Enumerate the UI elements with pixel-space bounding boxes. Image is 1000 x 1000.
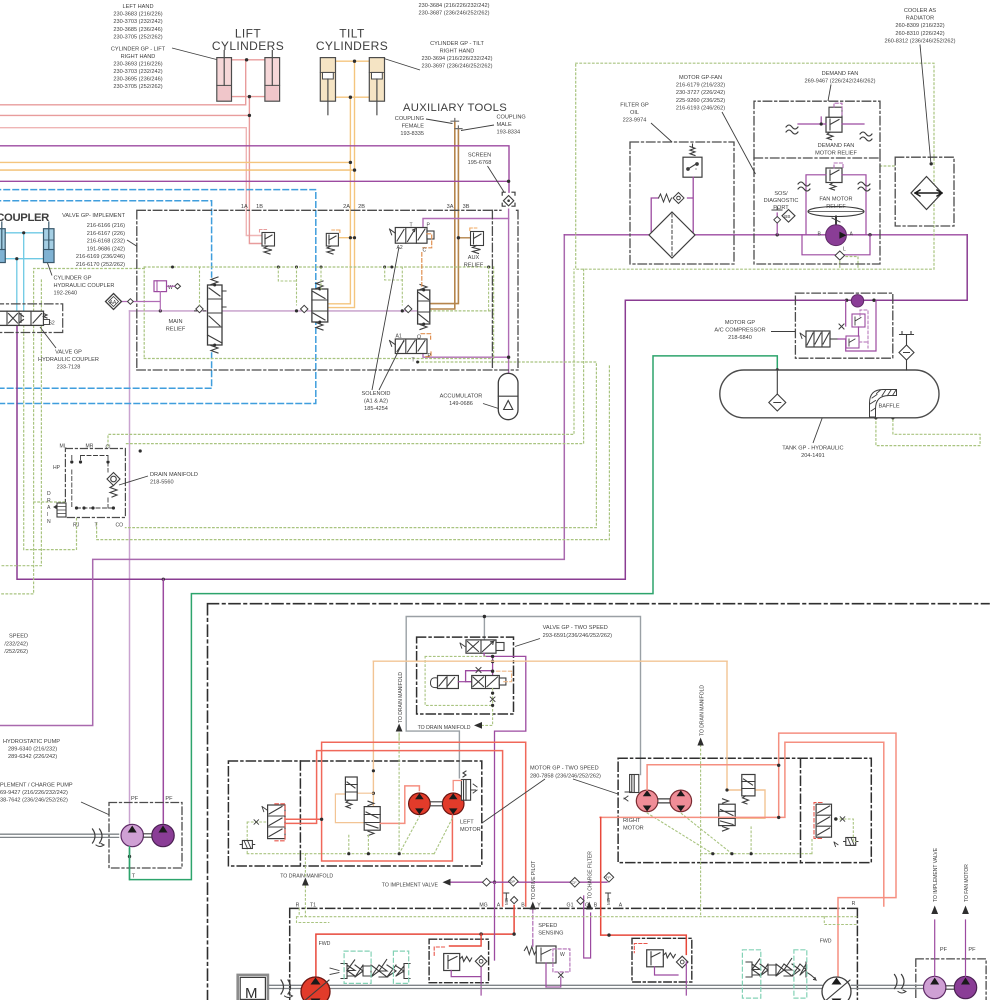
main relief spool 1 [208,277,227,353]
engine shaft upper [0,834,119,837]
svg-text:293-6591(236/246/252/262): 293-6591(236/246/252/262) [543,633,612,639]
svg-text:MOTOR RELIEF: MOTOR RELIEF [815,151,857,157]
arrow to drain manifold left of two speed box [396,724,403,732]
svg-text:SENSING: SENSING [538,931,563,937]
svg-text:HYDRAULIC COUPLER: HYDRAULIC COUPLER [38,357,99,363]
leaders solenoid [372,247,404,390]
label tank gp hydraulic [782,446,843,460]
svg-text:218-6840: 218-6840 [728,335,752,341]
svg-text:/232/242): /232/242) [4,641,28,647]
left motor salmon loop A [285,751,503,906]
svg-text:PF: PF [968,947,976,953]
wire pink lift cylinders top [232,59,266,61]
arrow to drive pilot [530,902,536,910]
svg-text:225-9260 (236/252): 225-9260 (236/252) [676,98,725,104]
label coupling male [497,115,526,136]
label aux relief [464,255,484,269]
junction dots implement gallery [159,309,404,312]
label fan motor relief [819,197,852,211]
wire purple charge pump riser [162,579,164,823]
ac compressor clutch circle [851,295,863,307]
wire orange relief 2 stub [338,237,354,239]
label valve gp hydraulic coupler [38,350,99,371]
svg-text:DIAGNOSTIC: DIAGNOSTIC [764,198,799,204]
label speed sensing [538,923,563,937]
svg-text:D: D [47,491,51,497]
svg-text:216-6168 (232): 216-6168 (232) [87,239,125,245]
leader cooler [920,45,931,163]
valve spool 2 [312,281,328,330]
left motor circle 1 [409,793,431,815]
drain manifold port labels [53,444,123,529]
junction dots orange [349,60,357,240]
small port symbols above boundary [504,893,611,900]
dash-dot divider implement accumulator bay [491,210,493,370]
green dotted tank bottom drains [876,418,980,446]
svg-text:MB: MB [504,898,509,905]
title lift cylinders [212,27,284,54]
svg-text:RIGHT HAND: RIGHT HAND [440,49,475,55]
label motor gp fan [676,75,725,111]
check diamond valve 3 [405,305,412,312]
fwd control linkage springs [330,959,410,979]
wire purple solenoid A1 T [423,351,509,357]
fan motor port letters [818,232,854,253]
svg-text:FP: FP [606,876,611,880]
leader charge pump [81,802,109,815]
label motor gp two speed [530,766,601,780]
svg-text:260-8312 (236/246/252/262): 260-8312 (236/246/252/262) [885,38,956,44]
relief valve 2 [326,230,340,254]
wire purple fan supply gallery [564,234,967,236]
green dotted cooler link [880,165,895,167]
junction dots fan gallery [650,233,876,302]
green dotted right motor drains [647,745,856,917]
leader tilt cylinder [384,59,420,71]
junction dot purple [507,180,510,183]
left motor relief cartridge [345,777,357,808]
wire purple long line to screen [0,146,509,192]
left shift valve [262,805,285,839]
svg-text:N: N [47,519,51,525]
svg-text:M: M [245,985,258,1000]
salmon left motor c2 stub [453,781,461,791]
svg-text:MOTOR: MOTOR [623,826,644,832]
arrow to drain manifold right motor [697,738,703,746]
svg-text:230-3687 (236/246/252/262): 230-3687 (236/246/252/262) [419,11,490,17]
green dotted fan box drain return [125,269,583,443]
svg-text:MOTOR GP - TWO SPEED: MOTOR GP - TWO SPEED [530,766,599,772]
svg-text:BB: BB [784,214,790,219]
leader drain manifold [119,476,148,485]
leader screen [488,166,505,192]
svg-text:216-6193 (246/262): 216-6193 (246/262) [676,105,725,111]
junction dot pump green [128,855,131,858]
purple dashed fan relief pilot [834,163,843,168]
dash-dot box drain manifold [65,449,125,518]
svg-text:S2: S2 [49,321,55,327]
svg-text:TO DRAIN MANIFOLD: TO DRAIN MANIFOLD [418,725,471,731]
dash-dot box pump gp [290,908,858,1000]
junction dot loop B valve stub [320,818,323,821]
svg-text:FWD: FWD [319,941,331,947]
svg-text:216-6170 (252/262): 216-6170 (252/262) [76,262,125,268]
svg-text:R: R [296,903,300,909]
svg-text:Y: Y [537,903,541,909]
leader valve gp coupler [40,327,56,348]
label right motor [623,818,644,832]
dash-dot box demand fan [754,101,880,158]
svg-text:COOLER AS: COOLER AS [904,8,937,14]
two speed solenoid valve [460,640,504,653]
teal dashed servo boxes rev [742,950,806,998]
green dotted left motor case drains [247,733,453,876]
label cylinder gp tilt [422,41,493,70]
wire brown aux coupling female to aux spool [430,122,455,309]
green dotted risers to spools [200,267,489,311]
drain manifold port dots [70,449,142,509]
arrow to implement valve vertical [931,906,938,915]
svg-text:TO CHARGE FILTER: TO CHARGE FILTER [588,851,594,899]
rev relief check diamond [676,956,688,968]
wire brown aux relief stub [458,237,470,239]
filter bypass spring [659,194,672,202]
wire purple port A continuation [494,882,496,960]
wire brown aux coupling male to aux spool [430,129,459,304]
svg-text:CF: CF [572,881,578,885]
coupler cylinder left sliver [0,222,5,263]
label main relief [166,319,186,333]
svg-text:230-3705 (252/262): 230-3705 (252/262) [113,34,162,40]
svg-text:P: P [427,223,431,229]
main drive shaft lower [268,985,923,988]
svg-text:CYLINDER GP - LIFT: CYLINDER GP - LIFT [111,47,166,53]
lines from pf arrows to circles [935,920,966,976]
svg-text:RIGHT HAND: RIGHT HAND [121,54,156,60]
hydraulic tank [720,370,939,418]
tank suction strainer [769,370,786,411]
purple dashed drive pilot riser [532,910,534,947]
svg-text:B: B [594,903,598,909]
junction dots green rail [171,266,490,269]
svg-text:G1: G1 [567,903,574,909]
leader valve gp two speed [515,639,540,647]
svg-text:TO IMPLEMENT VALVE: TO IMPLEMENT VALVE [382,883,439,889]
drain manifold internal dashes [72,456,114,509]
svg-text:RELIEF: RELIEF [166,327,186,333]
coupler cylinder right body [44,222,55,263]
wire blue dashed pilot box outer [0,190,316,404]
svg-text:ML: ML [60,444,67,450]
svg-text:193-8334: 193-8334 [497,130,521,136]
svg-text:RIGHT: RIGHT [623,818,641,824]
junction dots right drains [711,817,837,855]
svg-text:204-1491: 204-1491 [801,453,825,459]
svg-text:PF: PF [940,947,948,953]
label filter gp oil [620,103,649,124]
svg-text:MB: MB [606,898,611,905]
junction dot purple accumulator [507,356,510,359]
orifice two speed drain [490,697,495,702]
svg-text:289-6342 (226/242): 289-6342 (226/242) [8,754,57,760]
green dotted below left arrow [398,733,400,741]
green dotted fan motor case drain [840,257,858,270]
svg-text:280-7858 (236/246/252/262): 280-7858 (236/246/252/262) [530,773,601,779]
wire purple screen down to accumulator [508,209,510,373]
junction dot charge branch [162,578,165,581]
wire purple case line y559 [0,235,564,726]
svg-text:PF: PF [131,796,139,802]
svg-text:289-6340 (216/232): 289-6340 (216/232) [8,747,57,753]
svg-text:FWD: FWD [820,939,832,945]
junction dots salmon right [777,764,780,820]
svg-text:2A: 2A [343,204,350,210]
svg-text:B: B [521,903,525,909]
green dotted CI drain riser to fan box [108,269,574,446]
leaders motor gp two speed [482,779,618,823]
junction dot tank green [776,368,779,371]
svg-text:TO DRAIN MANIFOLD: TO DRAIN MANIFOLD [280,874,333,880]
label accumulator [440,394,483,408]
svg-text:A: A [619,903,623,909]
wire cyan coupler cylinders top [5,232,43,234]
svg-text:RELIEF: RELIEF [464,263,484,269]
fwd drive pump circle [301,977,330,1000]
svg-text:PORT: PORT [773,205,789,211]
svg-text:HYDRAULIC COUPLER: HYDRAULIC COUPLER [54,283,115,289]
svg-text:/252/262): /252/262) [4,649,28,655]
labels pf charge pump [131,796,173,880]
wire green dotted implement pressure top rail [144,266,493,268]
drain vertical letters [47,491,51,525]
label cylinder gp lift right hand [111,47,166,91]
red fwd pump gallery [316,906,514,978]
right motor circle 2 [670,790,692,812]
wire purple AA pilot [121,292,160,311]
orifice on two speed pilot [476,668,481,673]
svg-text:RELIEF: RELIEF [826,204,846,210]
orange dashed pilot A1 [421,334,431,357]
svg-text:193-8335: 193-8335 [400,131,424,137]
svg-text:P: P [428,353,432,359]
leader compressor [771,331,795,333]
svg-text:3B: 3B [463,204,470,210]
dash-dot box motor gp two speed right [618,758,871,862]
left motor shuttle spool [364,801,380,835]
accumulator [498,373,518,419]
leader lift cylinders [172,48,217,60]
tilt cylinder right body [369,58,384,115]
svg-text:260-8310 (226/242): 260-8310 (226/242) [895,31,944,37]
wire orange tilt cylinders bottom [336,96,370,98]
label coupling female [395,116,424,137]
dash-dot box valve gp implement [137,210,518,370]
fan motor case loop [802,235,870,255]
dash-dot box motor gp fan [754,158,880,264]
svg-text:VALVE GP - TWO SPEED: VALVE GP - TWO SPEED [543,625,608,631]
right motor relief cartridge [742,775,755,804]
wire pink lift line C to valve 1A [0,128,262,236]
svg-text:HYDROSTATIC PUMP: HYDROSTATIC PUMP [3,739,60,745]
svg-text:SCREEN: SCREEN [468,153,491,159]
lift cylinder left body [217,51,232,102]
green dotted manifold T drain run [97,365,610,540]
purple rev relief drain [655,962,687,995]
svg-text:T: T [410,223,413,229]
green dotted left margin drain 1 [0,269,144,594]
svg-text:MG: MG [479,903,487,909]
svg-text:216-6166 (216): 216-6166 (216) [87,223,125,229]
purple dashed demand relief pilot [834,103,842,117]
tank filler breather [899,332,914,371]
svg-text:233-7128: 233-7128 [57,365,81,371]
sos diagnostic port symbol [772,208,795,235]
svg-text:MALE: MALE [497,122,513,128]
label cooler as radiator [885,8,956,44]
junction dot demand relief [820,122,823,125]
svg-text:195-6768: 195-6768 [468,160,492,166]
svg-text:DEMAND FAN: DEMAND FAN [818,143,855,149]
svg-text:216-6167 (226): 216-6167 (226) [87,231,125,237]
svg-text:216-6169 (236/246): 216-6169 (236/246) [76,254,125,260]
wire orange two speed pilot long [373,660,727,662]
leader coupling male [461,125,494,131]
label tilt left numbers [419,3,490,17]
salmon right outer loop [779,733,896,978]
svg-text:A: A [47,505,51,511]
svg-text:MR: MR [86,444,94,450]
label lift left hand block [113,4,162,40]
svg-text:230-3684 (216/226/232/242): 230-3684 (216/226/232/242) [419,3,490,9]
pilot valve W main relief [154,281,181,292]
green dotted coupler valve drain [24,325,77,549]
label valve gp implement [62,213,125,268]
dash-dot box filter gp oil [630,142,734,264]
svg-text:230-3703 (232/242): 230-3703 (232/242) [113,69,162,75]
svg-text:DP: DP [510,880,516,884]
drain manifold HP stub [54,505,65,510]
left motor servo [461,771,477,800]
wire orange tilt cylinders top [336,60,370,62]
svg-text:MOTOR GP-FAN: MOTOR GP-FAN [679,75,722,81]
svg-text:TO DRAIN MANIFOLD: TO DRAIN MANIFOLD [398,672,404,723]
solenoid port letters [396,223,432,364]
green dotted implement drain to lower section [125,362,596,528]
wire purple long line 2 [0,180,509,182]
drain manifold check valve [107,473,120,498]
svg-text:218-5560: 218-5560 [150,480,174,486]
coupling female symbol [451,119,459,122]
svg-text:VALVE GP- IMPLEMENT: VALVE GP- IMPLEMENT [62,213,125,219]
svg-text:W: W [560,952,565,958]
aux spool 3 [418,285,430,330]
filter pressure switch [683,144,702,177]
label sos diagnostic port [764,191,799,211]
orange stub left cartridge [335,793,373,822]
svg-text:T1: T1 [310,903,316,909]
tilt cylinder left body [320,58,335,115]
junction dots tank bottom [874,416,894,419]
svg-text:223-9974: 223-9974 [623,118,647,124]
green dotted implement box left and bottom [144,267,493,359]
fan motor relief wiring [806,175,866,235]
dash-dot divider right motor box [800,758,802,862]
svg-text:2B: 2B [358,204,365,210]
wire purple solenoid A2 P [423,219,509,227]
svg-text:A: A [850,232,854,238]
junction dot brown [457,236,460,239]
coupling male symbol [455,126,462,129]
wire orange right motor pilot drop [727,661,765,818]
svg-text:G: G [585,903,589,909]
rev drive pump circle [822,977,851,1000]
wire orange long line to 2A [0,161,350,163]
svg-text:SPEED: SPEED [9,634,28,640]
left motor shaft [430,802,442,806]
dash-dot box fwd relief left [429,939,489,983]
fwd relief check diamond [475,956,487,968]
relief valve 1 [260,230,275,255]
svg-text:230-3697 (236/246/252/262): 230-3697 (236/246/252/262) [422,64,493,70]
svg-text:230-3727 (226/242): 230-3727 (226/242) [676,90,725,96]
junction dot drain [416,361,419,364]
check diamond AA line [127,299,133,305]
svg-text:R: R [47,498,51,504]
svg-text:PLEMENT / CHARGE PUMP: PLEMENT / CHARGE PUMP [0,783,73,789]
junction dots pink [245,58,251,117]
svg-text:PF: PF [165,796,173,802]
label screen [468,153,492,167]
purple charge filter risers [584,896,591,958]
svg-text:OIL: OIL [630,110,639,116]
port diamonds row [509,873,614,905]
red dashed bracket right shift valve [814,803,822,839]
port labels 1A-3B [241,204,470,210]
check diamond valve 1 [195,305,206,312]
svg-text:269-9467 (226/242/246/262): 269-9467 (226/242/246/262) [805,79,876,85]
svg-text:230-3693 (216/226): 230-3693 (216/226) [113,62,162,68]
pump port labels [296,901,856,909]
dash-dot box cooler as radiator [895,157,954,226]
svg-text:SOS/: SOS/ [774,191,788,197]
svg-text:CYLINDERS: CYLINDERS [212,39,284,53]
svg-text:VALVE GP: VALVE GP [55,350,82,356]
fan implement pf circles [924,976,977,998]
dash-dot box charge pump pf [109,803,182,869]
rev control linkage springs [746,958,816,980]
green dotted pump box rail [297,886,858,925]
svg-text:CYLINDER GP: CYLINDER GP [54,276,92,282]
svg-text:230-3705 (252/262): 230-3705 (252/262) [113,84,162,90]
left shift pilot filter [240,841,255,849]
cooler radiator diamond [911,162,942,209]
svg-text:TO DRAIN MANIFOLD: TO DRAIN MANIFOLD [700,685,706,736]
leader valve gp implement [127,240,137,246]
wire dark purple coupler drain to fan return [17,235,967,580]
charge pump T drain [129,847,131,880]
svg-text:LEFT: LEFT [460,820,474,826]
lift cylinder right body [265,51,280,102]
svg-text:38-7642 (236/246/252/262): 38-7642 (236/246/252/262) [0,798,68,804]
wire orange left motor pilot drop [372,661,374,806]
label demand fan [805,71,876,85]
svg-text:260-8309 (216/232): 260-8309 (216/232) [895,23,944,29]
svg-text:R: R [852,901,856,907]
wire purple implement main gallery [130,310,418,312]
wire cyan coupler cylinders bottom [5,258,43,260]
svg-text:COUPLING: COUPLING [395,116,424,122]
wire cyan riser A to coupler valve [23,233,25,311]
